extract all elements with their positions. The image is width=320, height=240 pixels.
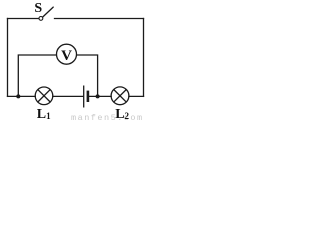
svg-text:L2: L2: [115, 107, 129, 122]
node A (junction dot left): [16, 94, 20, 98]
node B (junction dot right): [96, 94, 100, 98]
voltmeter right lead: [77, 55, 98, 96]
wire bottom: lamp L2 to right corner: [129, 95, 144, 97]
svg-text:L1: L1: [37, 107, 51, 122]
svg-text:manfen5.com: manfen5.com: [71, 113, 144, 122]
wire bottom: left corner to lamp L1: [8, 95, 36, 97]
wire top-right horizontal: [55, 18, 144, 20]
battery: long plate (positive): [83, 86, 85, 108]
voltmeter U left lead: [18, 55, 56, 96]
battery: short plate (negative): [87, 91, 90, 102]
wire right vertical: [143, 19, 145, 97]
switch S blade: [43, 7, 54, 17]
voltmeter V circle: [57, 44, 77, 64]
wire top-left horizontal: [8, 18, 39, 20]
wire bottom: lamp L1 to battery: [53, 95, 83, 97]
wire bottom: battery to lamp L2: [89, 95, 111, 97]
switch S pivot: [39, 17, 43, 21]
svg-text:V: V: [61, 48, 72, 64]
wire left vertical: [7, 19, 9, 97]
svg-text:S: S: [34, 1, 42, 16]
lamp L2: [111, 87, 129, 105]
lamp L1: [35, 87, 53, 105]
